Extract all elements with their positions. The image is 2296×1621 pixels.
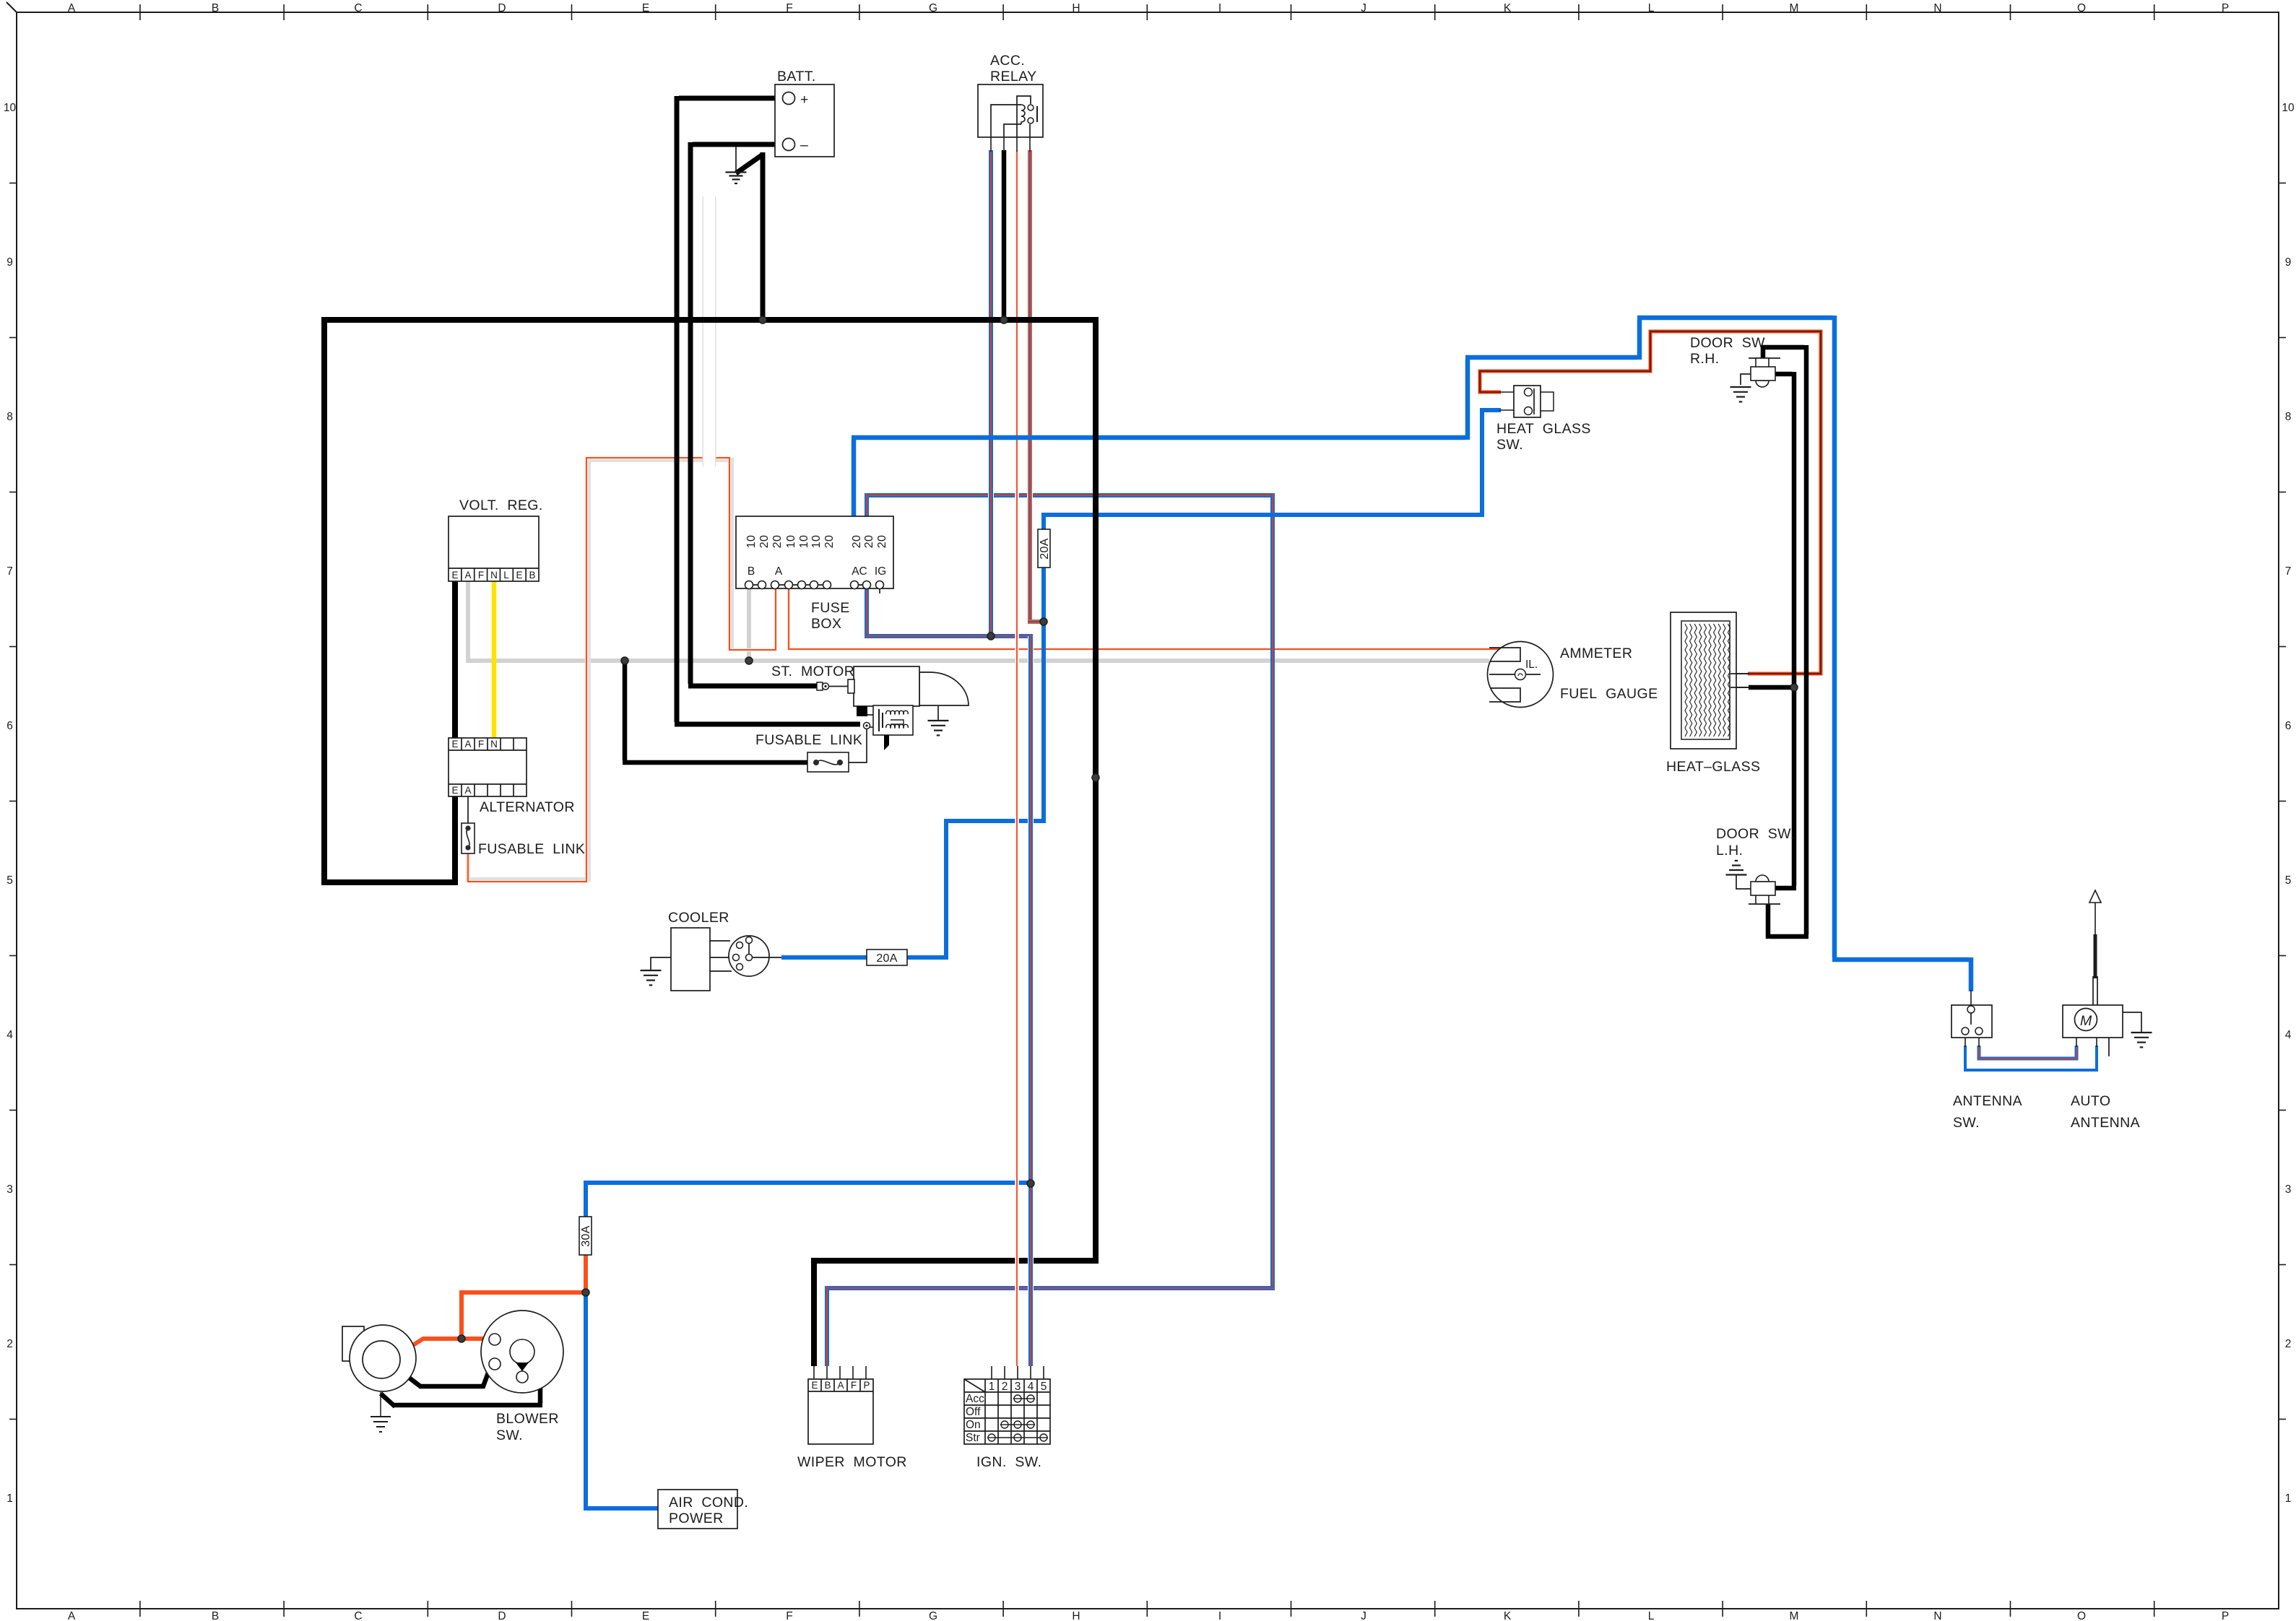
svg-text:VOLT. REG.: VOLT. REG.: [459, 497, 543, 513]
svg-text:20: 20: [758, 535, 771, 548]
svg-text:9: 9: [7, 256, 13, 269]
svg-text:I: I: [1218, 1610, 1221, 1621]
wiper motor WIPER MOTOR: [797, 1379, 907, 1470]
junction: 30A blue to IGN column 4 wire: [1027, 1180, 1034, 1187]
svg-text:SW.: SW.: [1953, 1115, 1980, 1131]
box AIR COND. POWER: [658, 1490, 748, 1529]
svg-text:FUEL GAUGE: FUEL GAUGE: [1560, 686, 1658, 702]
wire: blue fuse box top to DOOR/ANTENNA loop: [852, 440, 857, 516]
wire: blue heat glass sw feed from 20A: [1041, 513, 1480, 517]
svg-text:HEAT–GLASS: HEAT–GLASS: [1666, 759, 1760, 775]
svg-text:E: E: [451, 785, 458, 796]
svg-text:AIR COND.: AIR COND.: [669, 1495, 748, 1511]
svg-text:N: N: [490, 739, 498, 749]
svg-text:3: 3: [2285, 1183, 2292, 1196]
svg-text:10: 10: [4, 102, 17, 114]
wire: blue COOLER 20A line: [781, 955, 944, 960]
svg-text:L: L: [1648, 2, 1655, 14]
svg-text:A: A: [464, 739, 471, 749]
wire: yellow VOLT.REG N to ALTERNATOR N: [492, 581, 497, 738]
svg-text:ANTENNA: ANTENNA: [1953, 1093, 2022, 1109]
svg-text:ACC.: ACC.: [990, 53, 1025, 69]
svg-text:E: E: [642, 2, 649, 14]
junction: fuse box B to grey bus: [745, 657, 753, 664]
svg-text:K: K: [1504, 2, 1512, 14]
svg-text:ANTENNA: ANTENNA: [2071, 1115, 2140, 1131]
fuse 20A (heat glass circuit): [1038, 529, 1051, 568]
junction: battery ground strap to ground bus: [759, 316, 766, 323]
wire: blue 20A fuse vertical (HEAT GLASS feed): [1041, 515, 1046, 823]
terminal: solenoid: [864, 723, 870, 729]
svg-text:J: J: [1361, 2, 1366, 14]
wire: black battery - cable to ST.MOTOR: [693, 142, 784, 147]
svg-text:B: B: [212, 2, 219, 14]
svg-text:BATT.: BATT.: [777, 69, 816, 84]
svg-text:N: N: [1933, 1610, 1941, 1621]
svg-text:AUTO: AUTO: [2071, 1093, 2110, 1109]
svg-text:8: 8: [2285, 411, 2292, 423]
svg-text:A: A: [464, 570, 471, 581]
svg-text:P: P: [863, 1380, 870, 1391]
svg-text:C: C: [354, 2, 362, 14]
wire: grey from fuse box B terminal down to grey bus: [747, 585, 751, 661]
svg-text:AC: AC: [852, 565, 867, 578]
svg-text:A: A: [68, 2, 76, 14]
svg-text:F: F: [851, 1380, 857, 1391]
svg-text:RELAY: RELAY: [990, 69, 1037, 84]
svg-text:A: A: [464, 785, 471, 796]
wire: thin fusable link to solenoid terminal: [849, 729, 867, 762]
starter solenoid: [857, 705, 913, 750]
wire: blue/red striped antenna sw to auto antenna (upper): [1979, 1046, 2076, 1059]
wire: blue 30A feed to junction at IGN column 4: [584, 1185, 588, 1217]
ground: st motor: [937, 706, 939, 721]
svg-text:+: +: [800, 92, 809, 108]
wire: black HEAT-GLASS to door switch ground line: [1730, 687, 1749, 688]
svg-text:4: 4: [7, 1029, 13, 1041]
svg-text:I: I: [1218, 2, 1221, 14]
svg-text:R.H.: R.H.: [1690, 351, 1720, 367]
wire: black battery + cable to ST.MOTOR solenoid: [679, 96, 784, 101]
junction: vertex dot on ground bus branch: [1092, 774, 1099, 781]
svg-text:Str: Str: [966, 1432, 980, 1444]
svg-text:E: E: [642, 1610, 649, 1621]
fuse 30A (blower circuit): [579, 1217, 592, 1255]
svg-text:2: 2: [2285, 1338, 2292, 1350]
voltage regulator VOLT. REG.: [449, 497, 543, 581]
wire: blue antenna sw to auto antenna (lower): [1965, 1046, 2097, 1070]
wire: black battery ground strap: [736, 155, 763, 173]
wire: orange fuse box A2 terminal to AMMETER: [789, 585, 1501, 649]
wire: blue/red striped fuse box top to WIPER MOTOR B: [867, 493, 1270, 497]
wire: blue/red striped fuse box AC terminal run: [865, 493, 869, 634]
svg-text:6: 6: [7, 720, 13, 732]
battery BATT.: [775, 69, 834, 157]
wire: black ground bus loop (volt reg E / alternator E): [452, 581, 458, 879]
wire: black blower motor to BLOWER SW lower terminal: [399, 1367, 490, 1386]
wire: thin antenna sw stubs: [1964, 1035, 1966, 1047]
wire: thin lead heat-glass red terminal: [1736, 673, 1749, 674]
wire: red HEAT GLASS SW to HEAT-GLASS element loop: [1480, 331, 1821, 674]
wire: black DOOR SW R.H. top feed (outer vertical): [1763, 345, 1804, 358]
svg-text:J: J: [1361, 1610, 1366, 1621]
svg-text:D: D: [498, 1610, 506, 1621]
svg-text:DOOR SW.: DOOR SW.: [1716, 826, 1795, 842]
svg-text:On: On: [966, 1419, 981, 1431]
svg-text:4: 4: [1028, 1381, 1034, 1393]
junction: heat-glass black to door switch line: [1790, 684, 1798, 691]
svg-text:N: N: [1933, 2, 1941, 14]
svg-text:HEAT GLASS: HEAT GLASS: [1496, 421, 1591, 437]
wire: black ground bus right branch to WIPER MOTOR E: [814, 318, 1096, 1366]
svg-text:B: B: [824, 1380, 831, 1391]
svg-text:1: 1: [2285, 1492, 2292, 1505]
wire: orange junction to BLOWER SW terminal: [459, 1337, 489, 1341]
terminal: st motor +: [817, 682, 823, 690]
wire: black BLOWER SW wiper to blower motor ground: [524, 1357, 540, 1403]
wire: thin stubs ACC relay pins: [990, 137, 992, 152]
svg-text:F: F: [786, 1610, 792, 1621]
svg-text:FUSABLE LINK: FUSABLE LINK: [755, 732, 862, 748]
fuse box FUSE BOX: [736, 516, 893, 632]
wire: thin battery - to ground: [735, 147, 737, 172]
svg-text:IL.: IL.: [1525, 659, 1538, 671]
svg-text:M: M: [1790, 1610, 1799, 1621]
svg-text:SW.: SW.: [1496, 437, 1523, 453]
svg-text:H: H: [1072, 2, 1080, 14]
svg-text:30A: 30A: [580, 1225, 592, 1246]
wire: thin stubs IGN SW terminals: [991, 1366, 992, 1379]
wire: black ACC relay pin2 to ground bus: [1002, 150, 1007, 320]
switch HEAT GLASS SW.: [1496, 386, 1591, 453]
svg-text:K: K: [1504, 1610, 1512, 1621]
svg-text:E: E: [811, 1380, 818, 1391]
svg-text:C: C: [354, 1610, 362, 1621]
svg-text:20: 20: [863, 535, 875, 548]
svg-text:5: 5: [7, 874, 13, 887]
svg-text:10: 10: [785, 535, 797, 548]
junction: ACC relay pin1 to AC wire: [987, 633, 995, 640]
svg-text:AMMETER: AMMETER: [1560, 646, 1632, 661]
svg-text:POWER: POWER: [669, 1511, 724, 1526]
wire: white/red fusable link to fuse box A1 (via loop): [468, 460, 732, 879]
relay ACC. RELAY: [978, 53, 1043, 137]
svg-text:F: F: [478, 570, 484, 581]
svg-text:FUSE: FUSE: [811, 600, 850, 616]
svg-text:–: –: [800, 137, 808, 153]
svg-text:COOLER: COOLER: [668, 910, 729, 926]
svg-text:ST. MOTOR: ST. MOTOR: [771, 664, 854, 679]
wire: blue AIR COND. POWER feed: [586, 1290, 658, 1508]
switch ANTENNA SW.: [1951, 1005, 2022, 1131]
svg-text:1: 1: [989, 1381, 995, 1393]
svg-text:G: G: [929, 1610, 937, 1621]
svg-text:10: 10: [745, 535, 758, 548]
wire: thin blower motor ground lead: [380, 1392, 381, 1417]
svg-text:E: E: [451, 739, 458, 749]
wire: white/red ACC relay pin3 to IGN SW column 3 (lower): [1015, 794, 1019, 1366]
switch DOOR SW. L.H.: [1716, 826, 1795, 904]
svg-text:P: P: [2222, 2, 2229, 14]
svg-text:M: M: [2080, 1013, 2092, 1029]
svg-text:A: A: [68, 1610, 76, 1621]
switch DOOR SW. R.H.: [1690, 335, 1780, 401]
svg-text:O: O: [2077, 1610, 2086, 1621]
svg-text:O: O: [2077, 2, 2086, 14]
wire: white battery cable: [703, 196, 716, 466]
svg-text:8: 8: [7, 411, 13, 423]
svg-text:Off: Off: [966, 1406, 981, 1418]
cooler COOLER: [641, 910, 782, 991]
svg-text:F: F: [478, 739, 484, 749]
svg-text:7: 7: [2285, 565, 2292, 578]
starter motor ST. MOTOR: [771, 664, 969, 706]
svg-text:3: 3: [7, 1183, 13, 1196]
svg-text:3: 3: [1015, 1381, 1021, 1393]
svg-text:20: 20: [851, 535, 863, 548]
ground: battery: [726, 171, 747, 173]
svg-text:ALTERNATOR: ALTERNATOR: [480, 799, 575, 815]
svg-text:L.H.: L.H.: [1716, 843, 1743, 859]
wire: orange/blue striped ACC relay pin4 to 20A node: [1027, 150, 1033, 622]
svg-text:FUSABLE LINK: FUSABLE LINK: [478, 841, 585, 857]
svg-text:N: N: [490, 570, 498, 581]
switch BLOWER SW.: [481, 1311, 563, 1443]
wire: orange 30A fuse to blower junction: [584, 1254, 588, 1292]
svg-text:10: 10: [2282, 102, 2295, 114]
svg-text:P: P: [2222, 1610, 2229, 1621]
svg-text:E: E: [516, 570, 522, 581]
junction: ACC relay pin4 to 20A blue: [1040, 618, 1047, 625]
ground: blower motor: [371, 1416, 391, 1417]
svg-text:10: 10: [798, 535, 810, 548]
svg-text:IG: IG: [875, 565, 886, 578]
svg-text:5: 5: [2285, 874, 2292, 887]
junction: blower switch orange tee: [458, 1335, 465, 1342]
fusable link (starter feed): [755, 732, 862, 772]
wire: white/red ACC relay pin3 upper segment: [1015, 150, 1019, 794]
svg-text:B: B: [212, 1610, 219, 1621]
svg-text:6: 6: [2285, 720, 2292, 732]
svg-text:F: F: [786, 2, 792, 14]
svg-text:A: A: [837, 1380, 844, 1391]
svg-text:DOOR SW.: DOOR SW.: [1690, 335, 1769, 351]
switch table IGN. SW.: [964, 1379, 1050, 1470]
svg-text:IGN. SW.: IGN. SW.: [976, 1454, 1041, 1470]
svg-text:L: L: [1648, 1610, 1655, 1621]
heater element HEAT-GLASS: [1666, 612, 1760, 775]
blower motor: [342, 1325, 416, 1391]
svg-text:5: 5: [1041, 1381, 1047, 1393]
alternator ALTERNATOR: [449, 738, 575, 815]
svg-text:9: 9: [2285, 256, 2292, 269]
wire: blue/red striped ACC relay pin1 down to AC node: [988, 150, 994, 636]
svg-text:Acc: Acc: [966, 1393, 984, 1405]
svg-text:2: 2: [7, 1338, 13, 1350]
wire: thin stubs WIPER MOTOR terminals: [813, 1366, 815, 1379]
svg-text:20: 20: [823, 535, 836, 548]
svg-text:B: B: [529, 570, 535, 581]
wire: grey bus from VOLT.REG A terminal to AMMETER: [468, 581, 1489, 661]
svg-text:BLOWER: BLOWER: [496, 1411, 559, 1427]
svg-text:H: H: [1072, 1610, 1080, 1621]
wire: black DOOR SW R.H. to DOOR SW L.H. (inner vertical): [1772, 372, 1792, 377]
svg-text:L: L: [503, 570, 509, 581]
svg-text:SW.: SW.: [496, 1427, 523, 1443]
svg-text:G: G: [929, 2, 937, 14]
fuse 20A (cooler circuit): [867, 949, 907, 965]
wire: thin alternator A lead: [467, 796, 469, 823]
svg-text:WIPER MOTOR: WIPER MOTOR: [797, 1454, 907, 1470]
svg-text:E: E: [451, 570, 458, 581]
svg-text:D: D: [498, 2, 506, 14]
svg-text:BOX: BOX: [811, 616, 841, 632]
wire: orange junction to blower motor: [402, 1339, 464, 1352]
junction: grey bus to fusable link feed: [621, 657, 628, 664]
svg-text:A: A: [775, 565, 783, 578]
svg-text:20: 20: [876, 535, 888, 548]
junction: 30A orange to blower/air-cond: [582, 1289, 589, 1296]
motor AUTO ANTENNA: [2063, 890, 2152, 1131]
svg-text:7: 7: [7, 565, 13, 578]
svg-text:20: 20: [771, 535, 784, 548]
svg-text:20A: 20A: [1039, 538, 1051, 559]
wire: thin antenna sw feed from blue: [1970, 990, 1972, 1006]
svg-text:B: B: [748, 565, 755, 578]
svg-text:M: M: [1790, 2, 1799, 14]
fusable link (alternator): [462, 823, 585, 857]
svg-text:20A: 20A: [876, 952, 897, 965]
junction: ACC relay pin2 to ground bus: [1000, 316, 1008, 323]
gauge AMMETER / FUEL GAUGE: [1488, 642, 1658, 708]
wire: blue/red striped AC node down to IGN SW column 4: [1028, 636, 1034, 1366]
wire: black from grey bus to horizontal fusable link: [623, 661, 628, 760]
svg-text:10: 10: [810, 535, 823, 548]
svg-text:4: 4: [2285, 1029, 2292, 1041]
svg-text:1: 1: [7, 1492, 13, 1505]
svg-text:2: 2: [1002, 1381, 1008, 1393]
